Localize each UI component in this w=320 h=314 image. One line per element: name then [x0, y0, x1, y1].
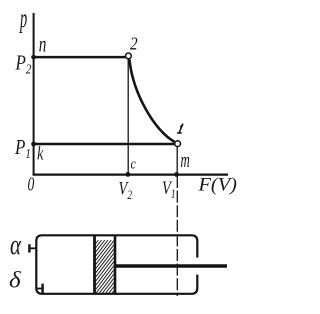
point 1 open circle — [175, 141, 181, 147]
process curve from 2 to 1 — [129, 59, 174, 142]
svg-text:F(V): F(V) — [197, 175, 236, 195]
svg-text:p: p — [19, 3, 28, 33]
node k dot at P1 on axis — [31, 142, 36, 147]
F(V) axis (horizontal) — [33, 174, 228, 176]
node m dot at V1 on axis — [174, 172, 179, 177]
point 2 open circle — [125, 53, 131, 59]
node c dot at V2 on axis — [126, 172, 131, 177]
line n-2 at P2 level — [33, 56, 126, 59]
port a bar — [28, 244, 30, 252]
line k-1 at P1 level — [33, 143, 175, 146]
piston hatched — [46, 240, 156, 300]
node n dot — [31, 55, 36, 60]
svg-text:δ: δ — [9, 268, 21, 293]
piston right wall — [114, 235, 117, 294]
svg-text:2: 2 — [130, 33, 138, 53]
port b stub — [36, 288, 42, 290]
svg-text:0: 0 — [28, 173, 35, 195]
vertical guide from point 2 to V2 — [127, 60, 129, 174]
piston left wall — [93, 235, 96, 294]
svg-text:α: α — [10, 229, 22, 261]
svg-text:m: m — [181, 147, 190, 172]
p axis (vertical) — [33, 13, 35, 175]
svg-text:k: k — [37, 142, 44, 163]
vertical guide from point 1 to V1 — [176, 147, 178, 174]
svg-text:n: n — [39, 33, 47, 58]
port a stub — [29, 247, 36, 249]
cylinder body outline — [36, 235, 197, 293]
port b bar — [41, 284, 43, 295]
piston rod — [116, 264, 227, 268]
label 1 — [178, 124, 183, 133]
dash-dot line from V1 down to cylinder — [176, 176, 178, 296]
svg-text:c: c — [131, 155, 136, 172]
